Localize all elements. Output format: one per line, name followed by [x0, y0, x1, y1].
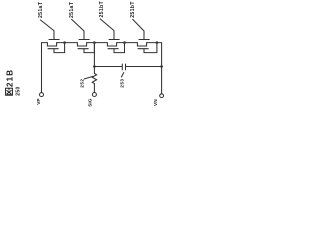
svg-text:SIG: SIG [88, 98, 94, 107]
svg-text:21B: 21B [6, 69, 15, 87]
svg-text:250: 250 [15, 86, 21, 96]
svg-text:253: 253 [120, 78, 126, 87]
svg-text:VP: VP [36, 98, 42, 105]
svg-text:251bT: 251bT [99, 0, 105, 17]
svg-text:VN: VN [153, 99, 159, 106]
svg-text:251aT: 251aT [69, 1, 75, 18]
svg-text:252: 252 [79, 78, 85, 87]
svg-text:251aT: 251aT [38, 1, 44, 18]
svg-text:251bT: 251bT [130, 1, 136, 18]
